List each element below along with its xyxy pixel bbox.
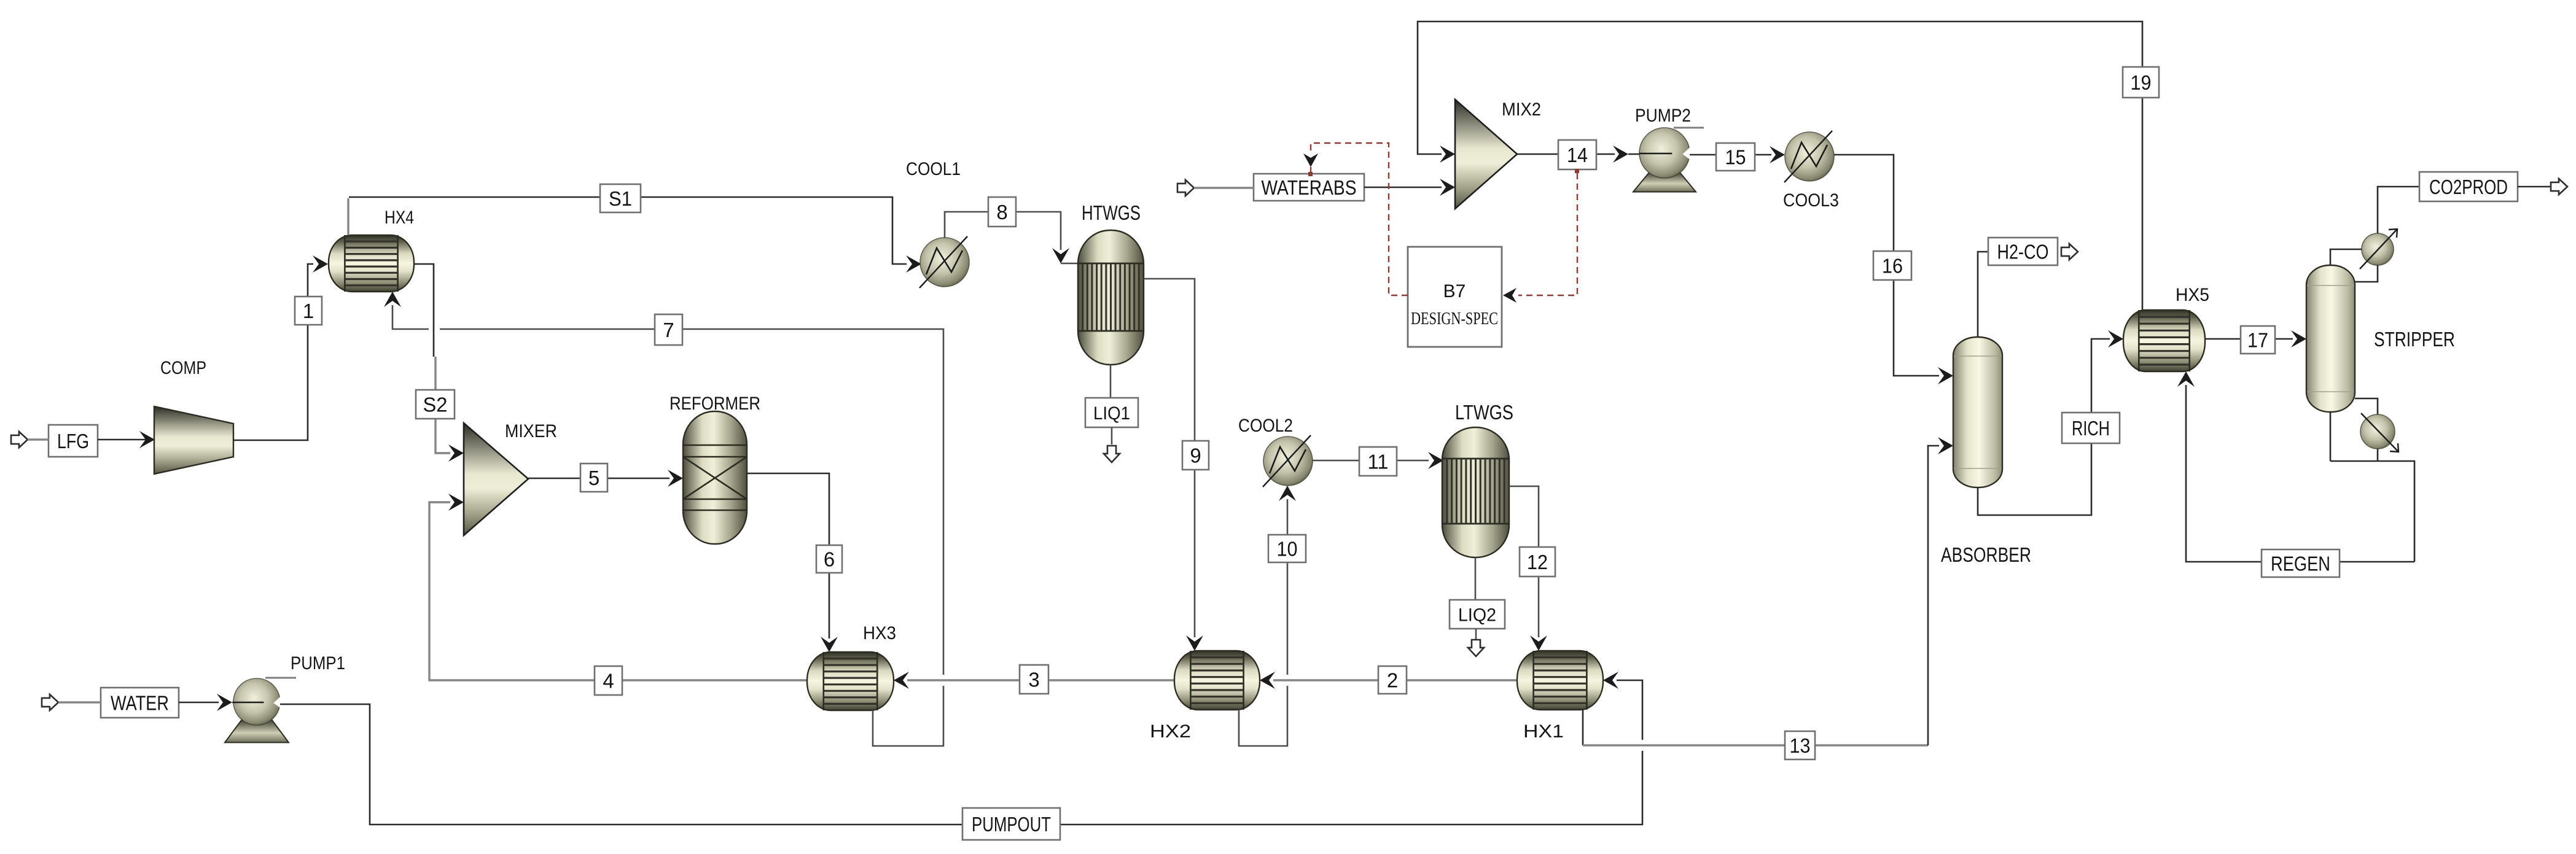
label HTWGS <box>1082 201 1141 224</box>
cooler COOL3 <box>1784 131 1834 182</box>
feed arrow LFG <box>11 432 28 448</box>
reactor REFORMER <box>683 411 747 544</box>
label HX2 <box>1150 721 1191 742</box>
wire stripper to reboiler <box>2355 398 2378 415</box>
svg-text:HX4: HX4 <box>384 208 414 228</box>
stream label 11 <box>1359 447 1397 476</box>
wire LIQ2 drain <box>1475 557 1477 600</box>
label COOL1 <box>906 159 961 179</box>
product arrow LIQ2 <box>1468 629 1484 656</box>
svg-text:8: 8 <box>996 201 1007 223</box>
svg-text:WATERABS: WATERABS <box>1262 176 1357 199</box>
stream label 13 <box>1785 731 1815 759</box>
label COOL3 <box>1783 190 1839 211</box>
wire stream 14 MIX2 to PUMP2 <box>1517 146 1666 163</box>
wire stream 10 HX2 to COOL2 <box>1239 486 1296 746</box>
wire stream S1 HX4 to COOL1 <box>348 197 921 273</box>
svg-text:S1: S1 <box>609 187 632 210</box>
stream label LIQ1 <box>1085 398 1138 427</box>
label LTWGS <box>1455 401 1513 424</box>
compressor COMP <box>154 406 233 474</box>
product arrow CO2PROD <box>2551 179 2567 195</box>
label PUMP2 <box>1635 106 1691 126</box>
svg-text:2: 2 <box>1387 669 1398 691</box>
stream label 3 <box>1020 665 1048 694</box>
stream label LIQ2 <box>1450 600 1505 629</box>
svg-text:LFG: LFG <box>57 430 89 452</box>
stream label 2 <box>1378 666 1407 694</box>
stream label WATER <box>101 688 179 718</box>
wire PUMPOUT PUMP1 to HX1 <box>280 672 1642 825</box>
svg-text:HX5: HX5 <box>2176 285 2209 305</box>
wire stream 15 PUMP2 to COOL3 <box>1690 146 1785 163</box>
wire reboiler down <box>2377 449 2379 461</box>
svg-text:HX2: HX2 <box>1150 721 1191 742</box>
feed arrow WATERABS <box>1177 180 1194 196</box>
svg-text:14: 14 <box>1567 144 1588 166</box>
svg-text:H2-CO: H2-CO <box>1997 240 2049 263</box>
stream label 7 <box>655 314 682 345</box>
pump PUMP2 label line <box>1674 127 1704 129</box>
svg-text:ABSORBER: ABSORBER <box>1941 543 2031 566</box>
stream label WATERABS <box>1254 174 1364 201</box>
mixer MIXER <box>464 423 528 535</box>
svg-text:COMP: COMP <box>160 358 206 378</box>
label HX4 <box>384 208 414 228</box>
wire condenser reflux <box>2355 265 2378 282</box>
dashed link B7 to WATERABS <box>1303 143 1408 295</box>
wire LFG to COMP <box>98 431 155 448</box>
label HX1 <box>1523 721 1564 742</box>
wire H2-CO ABSORBER top <box>1978 252 1988 337</box>
wire stream 7 HX3 to HX4 <box>384 292 943 746</box>
wire stream S2 HX4 to MIXER <box>414 264 464 462</box>
reactor LTWGS <box>1442 427 1509 557</box>
stream label CO2PROD <box>2419 172 2518 201</box>
label ABSORBER <box>1941 543 2031 566</box>
reboiler circle <box>2360 413 2398 452</box>
svg-text:LTWGS: LTWGS <box>1455 401 1513 424</box>
cooler COOL2 <box>1263 435 1313 487</box>
label MIXER <box>505 421 557 441</box>
wire CO2PROD to arrow <box>2518 186 2551 188</box>
svg-text:LIQ1: LIQ1 <box>1093 403 1130 424</box>
label REFORMER <box>669 394 760 414</box>
heat exchanger HX5 <box>2123 310 2205 371</box>
feed arrow WATER <box>42 694 58 710</box>
wire WATERABS to MIX2 <box>1364 179 1455 196</box>
stream label 4 <box>595 666 622 695</box>
svg-text:7: 7 <box>663 319 674 341</box>
pump PUMP1 <box>225 678 289 742</box>
wire WATER to PUMP1 <box>179 694 260 711</box>
svg-text:RICH: RICH <box>2072 417 2110 440</box>
svg-text:15: 15 <box>1725 146 1746 168</box>
label COMP <box>160 358 206 378</box>
heat exchanger HX4 <box>329 235 414 292</box>
wire stream 2 HX1 to HX2 <box>1260 672 1517 689</box>
svg-text:REGEN: REGEN <box>2271 552 2330 575</box>
pump PUMP1 label line <box>265 677 296 679</box>
stream label LFG <box>49 425 98 457</box>
stream label 6 <box>816 545 842 573</box>
svg-text:3: 3 <box>1028 668 1039 691</box>
svg-text:STRIPPER: STRIPPER <box>2374 328 2455 351</box>
dashed link 14 to B7 <box>1503 169 1579 303</box>
column ABSORBER <box>1953 337 2002 487</box>
svg-text:17: 17 <box>2247 328 2268 351</box>
svg-text:COOL1: COOL1 <box>906 159 961 179</box>
svg-text:WATER: WATER <box>111 691 169 714</box>
svg-text:16: 16 <box>1882 254 1903 277</box>
wire stream 17 HX5 to STRIPPER <box>2205 330 2306 347</box>
svg-text:PUMP2: PUMP2 <box>1635 106 1691 126</box>
stream label 15 <box>1716 143 1755 171</box>
wire stream 1 COMP to HX4 <box>233 255 328 440</box>
stream label S1 <box>600 184 641 212</box>
wire WATERABS feed to box <box>1194 187 1254 189</box>
svg-text:MIX2: MIX2 <box>1502 99 1541 120</box>
mixer MIX2 <box>1455 99 1517 209</box>
wire stream 4 HX3 to MIXER <box>429 494 807 680</box>
stream label RICH <box>2062 413 2120 443</box>
wire LFG feed to box <box>28 438 49 441</box>
wire stream 9 HTWGS to HX2 <box>1144 279 1203 651</box>
wire LIQ1 drain <box>1110 365 1112 398</box>
wire RICH ABSORBER to HX5 <box>1978 330 2123 515</box>
svg-text:HTWGS: HTWGS <box>1082 201 1141 224</box>
condenser circle <box>2360 229 2397 269</box>
svg-text:PUMP1: PUMP1 <box>291 653 345 673</box>
svg-text:HX1: HX1 <box>1523 721 1564 742</box>
product arrow H2-CO <box>2061 244 2078 260</box>
stream label 16 <box>1873 251 1911 280</box>
label PUMP1 <box>291 653 345 673</box>
svg-text:REFORMER: REFORMER <box>669 394 760 414</box>
wire stream 11 COOL2 to LTWGS <box>1313 452 1443 469</box>
wire stream 3 HX2 to HX3 <box>894 672 1174 689</box>
cooler COOL1 <box>919 236 969 288</box>
wire stripper top to condenser <box>2330 249 2362 265</box>
stream label 19 <box>2123 67 2159 98</box>
pump PUMP2 <box>1633 128 1696 192</box>
wire stream 8 COOL1 to HTWGS <box>945 212 1079 263</box>
label MIX2 <box>1502 99 1541 120</box>
column STRIPPER <box>2306 265 2355 412</box>
svg-text:COOL2: COOL2 <box>1238 416 1293 436</box>
stream label 8 <box>988 197 1016 227</box>
svg-text:LIQ2: LIQ2 <box>1458 605 1496 625</box>
svg-text:1: 1 <box>303 300 314 322</box>
reactor HTWGS <box>1078 230 1144 365</box>
stream label 12 <box>1520 547 1555 576</box>
wire stripper bottoms <box>2330 412 2414 562</box>
stream label 14 <box>1558 140 1596 169</box>
svg-text:12: 12 <box>1527 551 1548 573</box>
stream label 9 <box>1182 441 1209 470</box>
heat exchanger HX1 <box>1517 651 1603 710</box>
svg-text:MIXER: MIXER <box>505 421 557 441</box>
svg-text:DESIGN-SPEC: DESIGN-SPEC <box>1411 309 1498 328</box>
wire REGEN to HX5 <box>2177 371 2414 562</box>
svg-text:CO2PROD: CO2PROD <box>2429 176 2508 198</box>
product arrow LIQ1 <box>1104 427 1120 462</box>
stream label S2 <box>416 390 455 419</box>
svg-text:COOL3: COOL3 <box>1783 190 1839 211</box>
wire stream 16 COOL3 to ABSORBER <box>1834 155 1953 384</box>
svg-text:HX3: HX3 <box>863 623 896 643</box>
label HX5 <box>2176 285 2209 305</box>
label STRIPPER <box>2374 328 2455 351</box>
svg-text:5: 5 <box>588 467 599 489</box>
wire stream 12 LTWGS to HX1 <box>1509 486 1547 651</box>
svg-text:13: 13 <box>1790 734 1811 757</box>
svg-text:11: 11 <box>1368 450 1389 473</box>
wire stream 6 REFORMER to HX3 <box>747 473 838 652</box>
wire stream 13 HX1 to ABSORBER <box>1583 437 1953 745</box>
wire stream 5 MIXER to REFORMER <box>528 470 683 487</box>
wire stream 19 HX5 to MIX2 <box>1418 21 2142 310</box>
design-spec block B7 <box>1408 247 1502 347</box>
svg-text:S2: S2 <box>423 393 448 416</box>
heat exchanger HX3 <box>807 652 894 710</box>
svg-text:19: 19 <box>2131 71 2152 94</box>
stream label 17 <box>2241 326 2275 354</box>
svg-text:10: 10 <box>1277 537 1298 560</box>
stream label PUMPOUT <box>962 808 1060 840</box>
label COOL2 <box>1238 416 1293 436</box>
heat exchanger HX2 <box>1174 651 1260 710</box>
stream label H2-CO <box>1988 238 2058 265</box>
wire WATER feed to box <box>58 701 101 704</box>
label HX3 <box>863 623 896 643</box>
wire CO2PROD condenser to box <box>2378 187 2419 233</box>
stream label 5 <box>580 464 607 492</box>
svg-text:4: 4 <box>603 669 614 692</box>
stream label REGEN <box>2262 549 2340 577</box>
stream label 1 <box>295 297 322 325</box>
svg-text:B7: B7 <box>1443 281 1466 301</box>
stream label 10 <box>1268 535 1306 562</box>
svg-text:PUMPOUT: PUMPOUT <box>972 813 1051 836</box>
svg-text:6: 6 <box>824 548 835 570</box>
svg-text:9: 9 <box>1190 444 1201 467</box>
